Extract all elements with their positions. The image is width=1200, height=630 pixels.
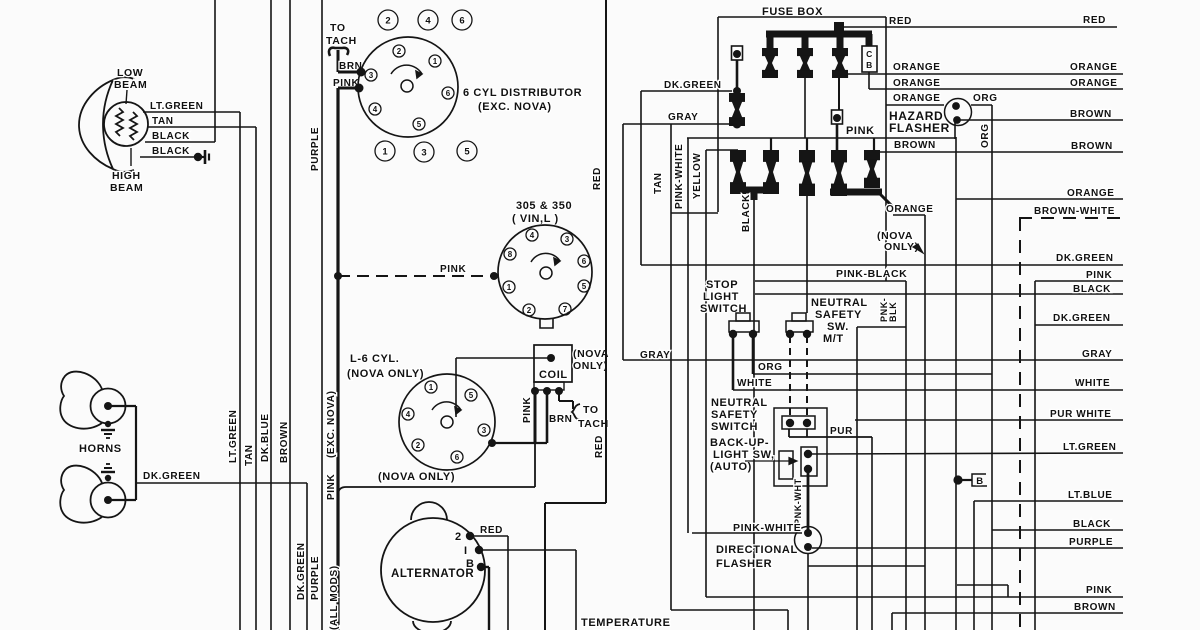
svg-text:BROWN-WHITE: BROWN-WHITE [1034, 206, 1115, 217]
wire bus BLACK x215 [214, 0, 216, 142]
svg-text:1: 1 [433, 57, 438, 66]
wire coil to L6 distributor [456, 358, 551, 417]
wire PINK (distributor) [333, 78, 364, 93]
svg-text:GRAY: GRAY [640, 350, 670, 361]
distributor U3 terminal 3 [478, 424, 490, 436]
svg-text:BLACK: BLACK [1073, 284, 1111, 295]
wire GRAY y124 [623, 112, 737, 124]
svg-text:ORANGE: ORANGE [1070, 78, 1118, 89]
svg-text:(ALL MODS): (ALL MODS) [329, 565, 340, 630]
fuse F6 [763, 150, 779, 194]
svg-text:(EXC. NOVA): (EXC. NOVA) [326, 390, 337, 458]
wire TAN (headlamp) [147, 116, 256, 127]
svg-text:7: 7 [563, 305, 568, 314]
svg-text:SAFETY: SAFETY [815, 309, 862, 321]
svg-text:BRN: BRN [549, 414, 572, 425]
svg-text:5: 5 [469, 391, 474, 400]
wire BRN / tach tap [549, 391, 609, 430]
svg-text:BROWN: BROWN [1071, 141, 1113, 152]
fuse bus D-E [830, 192, 893, 207]
fuse F7 [799, 150, 815, 196]
svg-text:RED: RED [480, 525, 503, 536]
wire x1020 note [0, 0, 1, 1]
wire ORANGE y73 [847, 62, 1123, 78]
svg-text:SWITCH: SWITCH [711, 421, 758, 433]
svg-text:RED: RED [594, 435, 605, 458]
distributor U3 body [399, 374, 495, 470]
ground (horn lower) [101, 464, 115, 481]
wire BROWN y152 [880, 140, 1123, 152]
svg-text:PINK-WHITE: PINK-WHITE [674, 144, 685, 209]
svg-text:DK.GREEN: DK.GREEN [296, 542, 307, 600]
wire PINK y596 [706, 585, 1123, 597]
distributor U2 terminal 8 [504, 248, 516, 260]
svg-text:ORANGE: ORANGE [1067, 188, 1115, 199]
directional flasher FL2 [795, 527, 822, 554]
wire y566 [808, 565, 925, 567]
wire DK.GREEN (horns) [136, 471, 307, 483]
svg-text:(AUTO): (AUTO) [710, 461, 752, 473]
svg-text:4: 4 [530, 231, 535, 240]
distributor U1 cap terminal 2 [393, 45, 405, 57]
cylinder 1 badge [375, 141, 395, 161]
distributor U3 rotor [432, 402, 461, 428]
fuse bus bar [766, 22, 872, 48]
distributor U3 terminal 2 [412, 439, 424, 451]
wire dashed (M/T right) [806, 336, 808, 416]
fuse F2 [797, 48, 813, 78]
label DIRECTIONAL FLASHER [716, 544, 798, 570]
ground (headlamp) [194, 150, 209, 164]
svg-text:DK.GREEN: DK.GREEN [1053, 313, 1111, 324]
svg-text:PINK: PINK [326, 474, 337, 500]
wire PINK-BLACK [755, 268, 907, 281]
wire PINK-WHITE x688 [674, 138, 688, 533]
svg-text:GRAY: GRAY [668, 112, 698, 123]
svg-text:2: 2 [527, 306, 532, 315]
neutral safety switch box [774, 408, 827, 486]
svg-text:B: B [466, 558, 475, 570]
svg-text:TEMPERATURE: TEMPERATURE [581, 617, 671, 629]
cylinder 2 badge [378, 10, 398, 30]
svg-text:ORG: ORG [973, 93, 998, 104]
svg-text:ORANGE: ORANGE [893, 62, 941, 73]
svg-text:ORG: ORG [758, 362, 783, 373]
label BACK-UP-LIGHT SW (AUTO) [710, 437, 775, 473]
wire LT.BLUE [974, 490, 1123, 630]
svg-text:PINK: PINK [440, 264, 466, 275]
svg-text:6: 6 [446, 89, 451, 98]
wire BLACK y530 [992, 519, 1123, 530]
svg-text:BLACK: BLACK [152, 146, 190, 157]
label HAZARD FLASHER [889, 109, 950, 135]
wire ORANGE y89 [869, 72, 1123, 89]
distributor U2 bottom tab [540, 318, 553, 328]
svg-text:1: 1 [429, 383, 434, 392]
cylinder 6 badge [452, 10, 472, 30]
wire PUR WHITE [855, 409, 1123, 420]
svg-text:ORANGE: ORANGE [893, 93, 941, 104]
svg-text:TAN: TAN [244, 444, 255, 466]
distributor U2 rotor [531, 253, 560, 279]
fuse F5 [730, 150, 746, 194]
neutral safety contacts [782, 416, 815, 429]
wire y585 [957, 585, 1008, 597]
svg-text:FLASHER: FLASHER [716, 558, 772, 570]
wire PINK dashed (to U2) [334, 264, 498, 280]
svg-text:RED: RED [1083, 15, 1106, 26]
label (NOVA ONLY) arrow [877, 230, 923, 253]
cylinder 5 badge [457, 141, 477, 161]
wire PINK y138 [687, 125, 956, 150]
label 6 CYL DISTRIBUTOR [463, 87, 582, 113]
horn upper [60, 372, 125, 429]
svg-text:BLK: BLK [888, 302, 898, 322]
hazard flasher FL1 [945, 99, 972, 126]
low-beam filament [116, 108, 123, 136]
label NEUTRAL SAFETY SW. M/T [811, 297, 868, 345]
terminal B box [953, 474, 987, 487]
distributor U2 terminal 3 [561, 233, 573, 245]
wire RED to temperature switch [545, 503, 606, 630]
wire YELLOW x706 [692, 150, 738, 597]
svg-text:BROWN: BROWN [279, 421, 290, 463]
square terminal (fuse chain 1) [732, 46, 743, 60]
svg-text:BROWN: BROWN [1070, 109, 1112, 120]
label TO TACH (top) [326, 22, 357, 47]
svg-text:RED: RED [889, 16, 912, 27]
wire BLACK to ground [140, 146, 198, 157]
svg-text:( VIN,L ): ( VIN,L ) [512, 213, 559, 225]
distributor U2 body [498, 225, 592, 319]
svg-text:TAN: TAN [653, 172, 664, 194]
label 305 & 350 [512, 200, 572, 225]
distributor U1 rotor [391, 65, 422, 92]
svg-text:B: B [866, 60, 873, 70]
svg-text:B: B [976, 476, 983, 487]
coil terminal dot [547, 354, 555, 362]
svg-text:ORANGE: ORANGE [886, 204, 934, 215]
svg-text:6 CYL DISTRIBUTOR: 6 CYL DISTRIBUTOR [463, 87, 582, 99]
svg-text:LT.BLUE: LT.BLUE [1068, 490, 1113, 501]
svg-text:PNK-WHT: PNK-WHT [793, 478, 803, 525]
label (NOVA ONLY) coil [573, 348, 609, 372]
wire PINK (coil down) [522, 391, 535, 487]
svg-text:(EXC. NOVA): (EXC. NOVA) [478, 101, 552, 113]
wire below flasher [807, 554, 809, 630]
svg-text:6: 6 [459, 15, 464, 26]
svg-text:LT.GREEN: LT.GREEN [228, 409, 239, 463]
wire RED vertical x606 [592, 0, 606, 503]
wire GRAY y360 [623, 124, 1123, 361]
label LOW BEAM [114, 67, 147, 104]
wire bus DK.BLUE x271 [260, 0, 271, 630]
fuse F4 (vertical chain) [729, 93, 745, 129]
wire ORG y374 [753, 334, 992, 374]
svg-text:BROWN: BROWN [894, 140, 936, 151]
svg-text:PINK: PINK [522, 397, 533, 423]
svg-text:SAFETY: SAFETY [711, 409, 758, 421]
square terminal (fuse chain 2) [832, 110, 843, 124]
svg-text:PUR WHITE: PUR WHITE [1050, 409, 1112, 420]
headlamp bulb [104, 102, 148, 146]
svg-text:TO: TO [330, 22, 346, 34]
wire BROWN y120 [955, 109, 1123, 139]
svg-text:TACH: TACH [578, 418, 609, 430]
wire LT.GREEN y453 [810, 442, 1123, 454]
svg-text:PINK: PINK [1086, 270, 1112, 281]
distributor U3 terminal 1 [425, 381, 437, 393]
wire BLACK y294 [755, 284, 1123, 295]
svg-text:PURPLE: PURPLE [310, 127, 321, 171]
label ALTERNATOR [391, 568, 474, 580]
horn lower [60, 466, 125, 523]
wire bus PINK x338 (EXC.NOVA) [326, 88, 340, 630]
tach hook symbol (top) [329, 48, 348, 72]
wire DK.GREEN y265 [641, 91, 1123, 265]
wire (alternator 1) [479, 550, 576, 630]
svg-text:BEAM: BEAM [114, 79, 147, 91]
svg-text:BROWN: BROWN [1074, 602, 1116, 613]
svg-text:ONLY): ONLY) [573, 360, 608, 372]
wire ORANGE y199 [956, 188, 1123, 199]
distributor U3 terminal 6 [451, 451, 463, 463]
wire fuse F8 feed [837, 78, 839, 150]
svg-text:COIL: COIL [539, 369, 568, 381]
label HORNS [79, 443, 122, 455]
svg-text:LIGHT: LIGHT [703, 291, 739, 303]
fuse bus A-B [730, 190, 779, 200]
svg-text:L-6 CYL.: L-6 CYL. [350, 353, 399, 365]
backup light switch S3 [779, 447, 817, 479]
distributor U2 terminal 7 [559, 303, 571, 315]
wire horn jumper [108, 406, 136, 500]
wire PURPLE y548 [812, 537, 1123, 548]
svg-text:305 & 350: 305 & 350 [516, 200, 572, 212]
svg-text:TACH: TACH [326, 35, 357, 47]
distributor U2 terminal 1 [503, 281, 515, 293]
svg-text:BLACK: BLACK [741, 194, 752, 232]
wire ORANGE (flasher feed) [886, 93, 944, 105]
svg-text:6: 6 [582, 257, 587, 266]
svg-text:ORG: ORG [980, 123, 991, 148]
svg-text:WHITE: WHITE [737, 378, 772, 389]
wire PNK-BLK x906 [879, 281, 906, 630]
svg-text:ORANGE: ORANGE [1070, 62, 1118, 73]
svg-text:PURPLE: PURPLE [1069, 537, 1113, 548]
svg-text:5: 5 [582, 282, 587, 291]
label (NOVA ONLY) wire [378, 471, 455, 483]
svg-text:PINK: PINK [846, 125, 875, 137]
svg-text:LIGHT SW,: LIGHT SW, [713, 449, 775, 461]
distributor U1 cap terminal 1 [429, 55, 441, 67]
svg-text:TAN: TAN [152, 116, 174, 127]
svg-text:LT.GREEN: LT.GREEN [150, 101, 204, 112]
wire BRN (distributor) [338, 61, 366, 77]
wire dashed (M/T left) [789, 336, 791, 416]
fuse F3 [832, 48, 848, 78]
svg-text:1: 1 [382, 146, 388, 157]
headlamp reflector [79, 77, 134, 172]
wire (alternator B) [481, 567, 489, 630]
svg-text:ORANGE: ORANGE [893, 78, 941, 89]
svg-text:3: 3 [482, 426, 487, 435]
wire PINK NOVA-ONLY [338, 487, 535, 495]
label HIGH BEAM [110, 148, 143, 194]
alternator terminal B [466, 558, 485, 571]
svg-text:4: 4 [373, 105, 378, 114]
svg-text:BLACK: BLACK [1073, 519, 1111, 530]
alternator terminal 1 [464, 545, 483, 557]
circuit breaker CB [862, 46, 877, 72]
fuse F8 [831, 150, 847, 196]
svg-text:TO: TO [583, 404, 599, 416]
svg-text:2: 2 [416, 441, 421, 450]
svg-text:8: 8 [508, 250, 513, 259]
label TEMPERATURE SWITCH [581, 617, 671, 630]
label FUSE BOX [762, 6, 823, 18]
distributor U1 cap terminal 6 [442, 87, 454, 99]
svg-text:YELLOW: YELLOW [692, 153, 703, 199]
svg-text:DIRECTIONAL: DIRECTIONAL [716, 544, 798, 556]
svg-text:2: 2 [455, 531, 462, 543]
svg-text:HORNS: HORNS [79, 443, 122, 455]
svg-text:ALTERNATOR: ALTERNATOR [391, 568, 474, 580]
wire TAN x671 [653, 124, 788, 630]
distributor U1 body [358, 37, 458, 137]
svg-text:C: C [866, 49, 873, 59]
distributor U2 terminal 6 [578, 255, 590, 267]
wire WHITE [733, 334, 1123, 390]
alternator A1 body [381, 502, 485, 630]
svg-text:GRAY: GRAY [1082, 349, 1112, 360]
svg-text:PINK: PINK [1086, 585, 1112, 596]
distributor U3 terminal 4 [402, 408, 414, 420]
svg-text:NEUTRAL: NEUTRAL [811, 297, 868, 309]
ground (horn upper) [101, 421, 115, 438]
distributor U1 cap terminal 3 [365, 69, 377, 81]
svg-text:WHITE: WHITE [1075, 378, 1110, 389]
high-beam filament [130, 112, 137, 140]
label L-6 CYL [347, 353, 424, 380]
wire bus TAN x256 [244, 127, 256, 630]
svg-text:DK.GREEN: DK.GREEN [143, 471, 201, 482]
svg-text:DK.GREEN: DK.GREEN [1056, 253, 1114, 264]
wire BLACK (headlamp) [145, 131, 215, 142]
wire DK.GREEN (to fusebox) [641, 80, 732, 91]
svg-text:LOW: LOW [117, 67, 143, 79]
label PINK-WHITE [733, 522, 801, 534]
svg-text:PINK-BLACK: PINK-BLACK [836, 268, 907, 280]
wire bus DK.GREEN x307 [296, 483, 307, 630]
svg-text:3: 3 [565, 235, 570, 244]
wire PUR [789, 426, 872, 630]
svg-text:NEUTRAL: NEUTRAL [711, 397, 768, 409]
distributor U2 terminal 5 [578, 280, 590, 292]
wire bus BROWN x290 [279, 0, 290, 630]
distributor U3 terminal 5 [465, 389, 477, 401]
stop light switch S1 [729, 313, 759, 338]
neutral safety switch M/T S2 [786, 313, 813, 338]
distributor U1 cap terminal 5 [413, 118, 425, 130]
svg-text:5: 5 [417, 120, 422, 129]
wire RED (fusebox feed) [843, 15, 1117, 27]
wire x857 [857, 327, 906, 630]
wire PINK-WHITE (flasher) [692, 532, 802, 534]
svg-text:6: 6 [455, 453, 460, 462]
svg-text:BLACK: BLACK [152, 131, 190, 142]
wire ORG (flasher out) [971, 93, 998, 630]
svg-text:BACK-UP-: BACK-UP- [710, 437, 769, 449]
wire BROWN y613 [892, 602, 1123, 630]
alternator terminal 2 [455, 531, 474, 543]
label NEUTRAL SAFETY SWITCH [711, 397, 768, 433]
wire LT.GREEN (headlamp) [143, 101, 240, 112]
wire PNK-WHT (to flasher) [793, 469, 808, 533]
svg-text:5: 5 [464, 146, 470, 157]
wire PINK x956 [955, 137, 957, 630]
wire DK.GREEN y325 [1035, 313, 1123, 325]
svg-text:HIGH: HIGH [112, 170, 141, 182]
wire / junction DK.GREEN tap [733, 60, 741, 95]
svg-text:I: I [464, 545, 468, 557]
wire PINK y281 (right) [1035, 270, 1123, 630]
svg-text:3: 3 [421, 147, 426, 158]
svg-text:4: 4 [425, 15, 431, 26]
arrow to backup switch [745, 458, 797, 465]
svg-text:2: 2 [397, 47, 402, 56]
svg-text:DK.GREEN: DK.GREEN [664, 80, 722, 91]
fuse F9 [864, 150, 880, 188]
svg-text:(NOVA ONLY): (NOVA ONLY) [378, 471, 455, 483]
distributor U2 terminal 4 [526, 229, 538, 241]
cylinder 4 badge [418, 10, 438, 30]
wire bus PURPLE x322 [310, 0, 322, 630]
fuse F1 [762, 48, 778, 78]
distributor U2 terminal 2 [523, 304, 535, 316]
wire fuse F7 feed [805, 78, 807, 150]
wire coil to points [488, 391, 547, 447]
svg-text:SW.: SW. [827, 321, 849, 333]
svg-text:RED: RED [592, 167, 603, 190]
coil C1 box [534, 345, 572, 382]
svg-text:FLASHER: FLASHER [889, 121, 950, 135]
cylinder 3 badge [414, 142, 434, 162]
distributor U1 cap terminal 4 [369, 103, 381, 115]
label STOP LIGHT SWITCH [700, 279, 747, 315]
wire RED (alternator 2) [470, 525, 508, 630]
fuse box outline [718, 17, 886, 281]
svg-text:BEAM: BEAM [110, 182, 143, 194]
wire (fuse to M/T switch) [806, 196, 808, 313]
wire BLACK x754 [741, 194, 754, 630]
wire bus LT.GREEN x240 [228, 112, 240, 630]
svg-text:PURPLE: PURPLE [310, 556, 321, 600]
svg-text:M/T: M/T [823, 333, 844, 345]
svg-text:STOP: STOP [706, 279, 738, 291]
svg-text:3: 3 [369, 71, 374, 80]
svg-text:4: 4 [406, 410, 411, 419]
wire BROWN-WHITE dashed [1019, 206, 1123, 630]
svg-text:2: 2 [385, 15, 390, 26]
wire fuse F9 feed [873, 138, 875, 152]
wire ORANGE (NOVA only) [886, 204, 934, 630]
coil bottom terminals [531, 382, 564, 395]
svg-text:DK.BLUE: DK.BLUE [260, 413, 271, 462]
svg-text:PUR: PUR [830, 426, 853, 437]
svg-text:1: 1 [507, 283, 512, 292]
svg-text:LT.GREEN: LT.GREEN [1063, 442, 1117, 453]
